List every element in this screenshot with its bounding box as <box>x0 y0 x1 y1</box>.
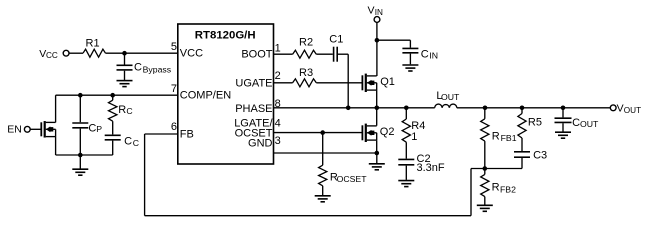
svg-text:R1: R1 <box>86 38 100 50</box>
svg-text:C1: C1 <box>329 34 343 46</box>
node CP top <box>78 93 83 98</box>
svg-text:4: 4 <box>275 118 281 130</box>
svg-text:1: 1 <box>411 131 417 143</box>
wire GND pin 3 <box>274 152 377 154</box>
transistor Q1 <box>361 75 363 90</box>
op-amp U1 RT8120G/H box <box>178 24 274 164</box>
node CIN branch <box>375 38 380 43</box>
svg-text:V: V <box>617 103 624 115</box>
svg-text:Q1: Q1 <box>380 76 395 88</box>
ground below RFB2 <box>477 204 493 206</box>
svg-text:RT8120G/H: RT8120G/H <box>195 30 256 42</box>
svg-text:R: R <box>492 181 500 193</box>
wire LOUT to VOUT <box>457 107 611 109</box>
node RC top <box>110 93 115 98</box>
svg-text:OUT: OUT <box>624 106 641 115</box>
resistor RC <box>112 95 114 100</box>
svg-text:FB2: FB2 <box>500 185 516 195</box>
wire Q2 drain to phase <box>376 108 378 126</box>
svg-text:Q2: Q2 <box>380 126 395 138</box>
capacitor CP <box>79 95 81 122</box>
resistor RFB1 <box>484 108 486 119</box>
svg-text:BOOT: BOOT <box>241 49 272 61</box>
wire VIN down <box>376 22 378 76</box>
node C1/phase <box>346 106 351 111</box>
svg-text:R5: R5 <box>528 117 542 129</box>
node R5 top <box>520 106 525 111</box>
svg-text:UGATE: UGATE <box>235 78 272 90</box>
transistor EN MOSFET <box>40 122 42 136</box>
node Q2 source/gnd <box>375 151 380 156</box>
wire C1 down to phase <box>347 54 349 108</box>
wire LGATE/OCSET pin 4 <box>274 132 362 134</box>
svg-text:R: R <box>492 130 500 142</box>
terminal VCC <box>63 50 69 56</box>
wire VCC input to R1 <box>69 52 83 54</box>
terminal VOUT <box>610 105 616 111</box>
transistor Q2 <box>361 125 363 140</box>
wire EN section bottom rail <box>56 154 113 156</box>
capacitor CIN <box>409 40 411 48</box>
capacitor C3 <box>514 151 530 153</box>
capacitor COUT <box>562 108 564 118</box>
resistor RFB2 <box>484 169 486 175</box>
svg-text:CC: CC <box>46 51 58 60</box>
svg-text:IN: IN <box>429 50 438 60</box>
svg-text:R2: R2 <box>299 36 313 48</box>
ground below ROCSET <box>315 195 331 197</box>
terminal EN <box>24 126 30 132</box>
ground below CIN <box>402 64 418 66</box>
ground below COUT <box>555 131 571 133</box>
resistor R1 <box>83 49 106 57</box>
resistor R4 <box>405 108 407 119</box>
wire Q2 source to GND pin 3 <box>376 140 378 153</box>
node Q1/Q2 phase <box>375 106 380 111</box>
wire feedback bottom run <box>145 215 471 217</box>
svg-text:R3: R3 <box>299 67 313 79</box>
ground below C2 <box>398 180 414 182</box>
node gnd rail <box>78 153 83 158</box>
wire EN gate lead <box>30 128 40 130</box>
wire ROCSET down <box>322 133 324 166</box>
svg-text:GND: GND <box>248 137 273 149</box>
svg-text:EN: EN <box>7 124 22 136</box>
svg-text:COMP/EN: COMP/EN <box>180 90 231 102</box>
capacitor CBypass <box>124 53 126 64</box>
wire COMP/EN top rail to pin 7 <box>56 94 178 96</box>
ground below EN rail <box>72 168 88 170</box>
svg-text:VCC: VCC <box>180 47 203 59</box>
node R4 top <box>404 106 409 111</box>
ground below Q2 <box>369 163 385 165</box>
svg-text:OUT: OUT <box>580 119 599 129</box>
resistor R5 <box>521 108 523 114</box>
svg-text:C: C <box>88 122 96 134</box>
capacitor CC <box>105 134 121 136</box>
ground below CBypass <box>117 80 133 82</box>
inductor LOUT <box>435 104 457 108</box>
resistor ROCSET <box>319 165 327 186</box>
svg-text:3.3nF: 3.3nF <box>417 162 445 174</box>
svg-text:FB: FB <box>180 129 194 141</box>
svg-text:R: R <box>118 104 126 116</box>
wire to CIN <box>377 39 411 41</box>
node COUT top <box>561 106 566 111</box>
svg-text:V: V <box>368 5 375 17</box>
svg-text:FB1: FB1 <box>501 133 517 143</box>
svg-text:OCSET: OCSET <box>337 174 368 184</box>
wire BOOT pin 1 <box>274 53 293 55</box>
svg-text:C: C <box>134 61 142 73</box>
wire UGATE pin 2 <box>274 82 293 84</box>
svg-text:C: C <box>126 106 132 116</box>
svg-text:3: 3 <box>275 135 281 147</box>
wire FB junction row <box>471 168 522 170</box>
resistor R3 <box>293 79 317 87</box>
node ROCSET branch <box>320 130 325 135</box>
wire R1 to pin 5 <box>106 52 178 54</box>
wire Q1 source to phase <box>376 90 378 108</box>
svg-text:C: C <box>421 49 429 61</box>
svg-text:C3: C3 <box>533 150 547 162</box>
svg-text:C: C <box>133 138 139 148</box>
node VCC/CBypass junction <box>122 51 127 56</box>
node RFB1 top <box>483 106 488 111</box>
terminal VIN <box>374 17 380 23</box>
svg-text:OUT: OUT <box>441 92 460 102</box>
capacitor C1 <box>333 47 335 62</box>
wire PHASE pin 8 rail <box>274 107 435 109</box>
node FB divider junction <box>483 166 488 171</box>
wire EN source down to gnd rail <box>55 137 57 155</box>
wire FB pin 6 <box>145 133 178 135</box>
svg-text:6: 6 <box>171 121 177 133</box>
svg-text:C: C <box>124 136 132 148</box>
svg-text:2: 2 <box>275 70 281 82</box>
svg-text:1: 1 <box>275 42 281 54</box>
svg-text:5: 5 <box>171 41 177 53</box>
resistor R2 <box>293 50 317 58</box>
svg-text:C: C <box>572 117 580 129</box>
wire EN drain up to COMP rail <box>55 95 57 122</box>
svg-text:IN: IN <box>375 8 383 17</box>
capacitor C2 <box>398 158 414 160</box>
svg-text:P: P <box>96 124 102 134</box>
svg-text:PHASE: PHASE <box>235 103 272 115</box>
svg-text:Bypass: Bypass <box>143 65 172 75</box>
svg-text:7: 7 <box>171 83 177 95</box>
